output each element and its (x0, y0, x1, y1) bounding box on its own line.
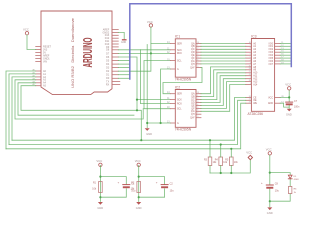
svg-text:QH*: QH* (190, 118, 194, 120)
IC1 left pin stubs (170, 44, 175, 69)
wire eeprom WE (6, 103, 246, 149)
svg-text:26: 26 (249, 80, 251, 82)
IC1 left pin numbers (167, 42, 170, 70)
svg-text:1: 1 (250, 83, 251, 85)
svg-text:VCC: VCC (96, 159, 102, 163)
svg-text:3: 3 (197, 51, 198, 53)
ground SGND4 (98, 202, 103, 205)
IC1 left pin names (177, 43, 182, 71)
eeprom io pin numbers (281, 42, 284, 104)
svg-text:1: 1 (197, 45, 198, 47)
svg-text:10u: 10u (275, 190, 280, 193)
wire pullup rail (210, 160, 250, 174)
svg-text:GND: GND (97, 206, 103, 210)
svg-text:10: 10 (249, 42, 251, 44)
svg-text:VIN: VIN (43, 60, 47, 63)
eeprom left pin numbers (249, 42, 251, 104)
svg-text:G: G (177, 123, 179, 125)
junction G net (160, 122, 162, 124)
svg-text:+: + (261, 181, 263, 185)
ground SGND2 (145, 128, 150, 131)
svg-text:2: 2 (197, 98, 198, 100)
wire D1 to bus (118, 74, 129, 76)
svg-text:A14: A14 (253, 83, 258, 86)
svg-text:74HC595N: 74HC595N (175, 78, 192, 82)
wire cluster1 cap branch (100, 177, 126, 198)
svg-text:QH*: QH* (190, 67, 194, 69)
IC2 right pin stubs (196, 94, 201, 118)
svg-text:+: + (118, 181, 120, 185)
ground SGND6 (267, 207, 272, 210)
svg-text:5: 5 (250, 57, 251, 59)
op IC1 74HC595 box (175, 39, 196, 77)
IC1 right pin names (190, 42, 195, 69)
svg-text:QE: QE (191, 105, 195, 107)
wire D5 to bus (118, 60, 129, 62)
wire D6 trunk (118, 57, 137, 110)
wire eeprom GND net (280, 103, 289, 108)
wire cluster3 main (269, 155, 271, 206)
diode D1 (288, 175, 292, 178)
svg-text:IC1: IC1 (175, 35, 180, 39)
svg-text:QH: QH (191, 64, 195, 66)
svg-text:9: 9 (197, 66, 198, 68)
ground SGND5 (136, 202, 141, 205)
capacitor C1 (123, 184, 130, 186)
svg-text:A13: A13 (253, 81, 258, 84)
svg-text:8: 8 (250, 48, 251, 50)
svg-text:4: 4 (250, 59, 251, 61)
wires IC2 outputs to eeprom A8-A14 (201, 67, 246, 111)
svg-text:7: 7 (197, 62, 198, 64)
wire IC1 G to ground net (161, 69, 171, 123)
svg-text:GND: GND (121, 42, 126, 44)
svg-text:SCK: SCK (177, 100, 182, 102)
ground SGND1 (123, 39, 126, 41)
wire SCL1 trunk to IC2 SCL (144, 61, 170, 109)
eeprom left pin names (253, 42, 258, 105)
svg-text:74HC595N: 74HC595N (175, 128, 192, 132)
wire A2 (12, 77, 36, 140)
junction A5 joins row1 (140, 139, 142, 141)
svg-text:G: G (177, 69, 179, 71)
svg-text:QA: QA (191, 42, 195, 45)
op IC3 eeprom box (251, 39, 274, 112)
svg-text:3: 3 (197, 101, 198, 103)
junction eeprom VCC (288, 96, 290, 98)
svg-text:9: 9 (250, 45, 251, 47)
cluster 2: supply VCC P6 (137, 163, 140, 166)
resistor R6 (289, 186, 292, 193)
arduino analog pin stubs A0-A5 (36, 71, 41, 86)
svg-text:QC: QC (191, 49, 195, 51)
svg-text:RCK: RCK (177, 53, 182, 55)
arduino analog pin names (43, 70, 47, 88)
svg-text:SCK: SCK (177, 50, 182, 52)
svg-text:QB: QB (191, 46, 195, 48)
svg-text:QE: QE (191, 55, 195, 57)
svg-text:VCC: VCC (285, 83, 291, 87)
svg-text:QH: QH (191, 114, 195, 116)
arduino right pin names (103, 28, 110, 86)
wire A1 (9, 74, 36, 145)
svg-text:QB: QB (191, 97, 195, 99)
svg-text:I/O4: I/O4 (269, 55, 274, 57)
junction G/VCC trunk (146, 122, 148, 124)
wires IC1 QA-QH to eeprom A0-A7 (201, 43, 246, 64)
capacitor C7 (286, 101, 293, 103)
svg-text:ARDUINO: ARDUINO (80, 38, 95, 68)
svg-text:VCC: VCC (266, 148, 272, 152)
supply VCC P2 (149, 24, 152, 27)
svg-text:100n: 100n (294, 105, 300, 108)
svg-text:IC3: IC3 (251, 34, 256, 38)
svg-text:2: 2 (250, 77, 251, 79)
resistor R1 (99, 182, 103, 193)
wires eeprom I/O0-7 to bus (280, 43, 290, 64)
svg-text:6: 6 (250, 54, 251, 56)
analog pad labels (32, 69, 34, 87)
svg-text:VCC: VCC (135, 159, 141, 163)
cluster 1: supply VCC P5 (99, 163, 102, 166)
svg-text:4: 4 (197, 104, 198, 106)
wire A3 (ground net row) (15, 80, 143, 119)
wire D4 to bus (118, 63, 129, 65)
resistor R2 (137, 182, 141, 193)
wire D7 to IC1 RCK (118, 52, 170, 54)
capacitor C2 (161, 184, 168, 186)
svg-text:5: 5 (197, 107, 198, 109)
svg-text:SCL: SCL (177, 109, 182, 111)
arduino right pin stubs lower group (112, 53, 120, 84)
junction on RCK1 row (150, 52, 152, 54)
svg-text:I/O2: I/O2 (269, 49, 274, 51)
wire IC1 QH* chain to IC2 SER (163, 67, 202, 93)
svg-text:5: 5 (197, 57, 198, 59)
svg-text:A10: A10 (253, 72, 258, 75)
resistor R3 (208, 157, 212, 166)
svg-text:22: 22 (249, 99, 251, 101)
wire VCC P2 down (147, 27, 151, 123)
junction A5 row (136, 109, 138, 111)
IC1 right pin numbers (197, 42, 199, 68)
arduino left power pin stubs (36, 47, 41, 62)
wire trunk to IC2 RCK (141, 50, 171, 104)
eeprom right pin stubs (275, 43, 281, 103)
svg-text:RX: RX (106, 84, 110, 87)
svg-text:UNO R3/B2 Diecimila Duemil: UNO R3/B2 Diecimila Duemilanove (71, 18, 75, 88)
svg-text:QD: QD (191, 102, 195, 104)
svg-text:+: + (156, 181, 158, 185)
svg-text:6: 6 (197, 59, 198, 61)
wire D0 to bus (118, 77, 129, 79)
IC2 right pin numbers (197, 92, 199, 118)
svg-text:23: 23 (249, 74, 251, 76)
svg-text:27: 27 (249, 102, 251, 104)
wire eeprom VCC net (280, 90, 289, 102)
svg-text:AT28C256: AT28C256 (248, 112, 264, 116)
svg-text:GND: GND (286, 113, 292, 117)
svg-text:1: 1 (197, 95, 198, 97)
svg-text:VCC: VCC (147, 20, 153, 24)
wire cluster2 cap branch (139, 177, 165, 198)
svg-text:3: 3 (250, 62, 251, 64)
svg-text:SER: SER (177, 94, 182, 96)
svg-text:QA: QA (191, 93, 195, 96)
svg-text:GND: GND (146, 132, 152, 136)
supply VCC P4 diamond (248, 155, 252, 159)
IC1 right pin stubs (196, 43, 201, 67)
svg-text:21: 21 (249, 71, 251, 73)
arduino right pin stubs upper group (112, 30, 118, 50)
svg-text:I/O1: I/O1 (269, 46, 274, 48)
svg-text:GND: GND (267, 211, 273, 215)
wire A4 (18, 83, 134, 115)
capacitor C8 (266, 184, 273, 186)
wire VCC P1 to 3V3 pin (27, 35, 36, 50)
svg-text:IC2: IC2 (175, 85, 180, 89)
svg-text:4148: 4148 (294, 179, 300, 181)
arduino U1 outline (41, 11, 112, 95)
svg-text:SER: SER (177, 43, 182, 45)
wire A0 (6, 71, 36, 149)
wire IC2 G to ground (147, 123, 170, 128)
svg-text:WE: WE (253, 103, 257, 105)
svg-text:24: 24 (249, 68, 251, 70)
svg-text:QC: QC (191, 100, 195, 102)
IC2 left pin stubs (170, 94, 175, 123)
eeprom control pin stubs (246, 97, 252, 103)
wire cluster1 main (99, 165, 101, 201)
svg-text:15: 15 (197, 92, 199, 94)
wire eeprom OE (9, 100, 246, 144)
svg-text:7: 7 (250, 51, 251, 53)
svg-text:2: 2 (197, 48, 198, 50)
wire cluster3 branch (270, 173, 290, 202)
svg-text:GND: GND (268, 103, 273, 105)
wire SCK2 branch (137, 99, 170, 101)
svg-text:QD: QD (191, 52, 195, 54)
svg-text:QG: QG (191, 111, 195, 113)
svg-text:25: 25 (249, 65, 251, 67)
svg-text:7: 7 (197, 113, 198, 115)
IC2 right pin names (190, 93, 195, 120)
svg-text:15: 15 (197, 42, 199, 44)
supply VCC P1 (25, 32, 28, 35)
svg-text:VCC: VCC (246, 151, 252, 155)
svg-text:I/O3: I/O3 (269, 52, 274, 54)
svg-text:SCL: SCL (177, 61, 182, 63)
svg-text:A12: A12 (253, 78, 258, 81)
svg-text:10u: 10u (170, 189, 175, 192)
IC2 left pin numbers (167, 92, 170, 123)
ground SGND3 (287, 109, 292, 112)
eeprom right pin names (268, 43, 274, 105)
svg-text:9: 9 (197, 116, 198, 118)
wire D2 to IC1 SER (118, 44, 170, 72)
svg-text:VCC: VCC (268, 97, 273, 99)
arduino left power pin names (43, 45, 52, 63)
wire cluster2 main (138, 165, 140, 201)
data bus D[0..7] (130, 4, 291, 79)
svg-text:QG: QG (191, 61, 195, 63)
resistor R5 (230, 157, 234, 166)
IC2 left pin names (177, 94, 182, 125)
svg-text:I/O6: I/O6 (269, 61, 274, 63)
svg-text:VCC: VCC (23, 28, 29, 32)
svg-text:I/O0: I/O0 (269, 43, 274, 45)
supply VCC P3 (288, 87, 291, 90)
op IC2 74HC595 box (175, 90, 196, 128)
wire A5 (21, 86, 141, 141)
svg-text:GND: GND (136, 206, 142, 210)
wire D8 to IC1 SCK (118, 49, 170, 51)
junction SCK2 (136, 99, 138, 101)
wire D3 to bus (118, 67, 129, 69)
resistor R4 (219, 157, 223, 166)
svg-text:RCK: RCK (177, 104, 182, 106)
wire eeprom CE (12, 97, 246, 140)
svg-text:4: 4 (197, 54, 198, 56)
svg-text:20: 20 (249, 96, 251, 98)
cluster 3: supply VCC P7 (268, 152, 271, 155)
svg-text:CE: CE (253, 97, 257, 99)
svg-text:I/O5: I/O5 (269, 58, 274, 60)
svg-text:OE: OE (253, 100, 257, 102)
wire arduino GND2 to ground (118, 32, 124, 39)
svg-text:I/O7: I/O7 (269, 64, 274, 66)
eeprom left pin stubs A0-A14 (246, 43, 252, 84)
svg-text:6: 6 (197, 110, 198, 112)
